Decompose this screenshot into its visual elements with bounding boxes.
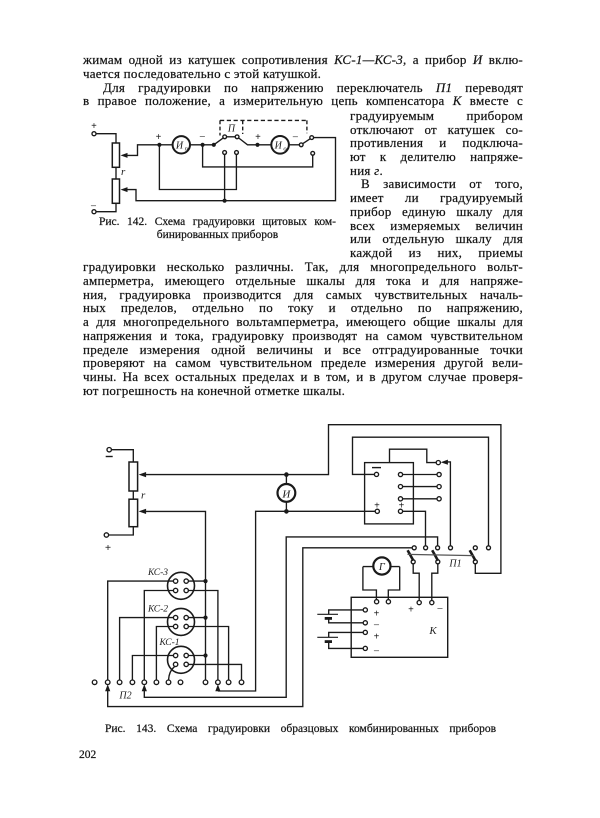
wire node B down to G' <box>203 145 313 167</box>
page number <box>79 749 96 761</box>
KC-3 UR wire to long vertical <box>188 580 205 582</box>
svg-text:+: + <box>255 132 261 143</box>
P1 pivot2 wire down to K minus <box>432 564 438 601</box>
meter Io (reference instrument) <box>271 136 289 154</box>
P1 pivot1 wire down to K plus <box>413 564 419 601</box>
K left terminals <box>363 608 367 612</box>
box plus terminal <box>375 509 379 513</box>
wire between boxes <box>115 167 117 179</box>
svg-text:П1: П1 <box>448 559 461 570</box>
KC-2 LL wire to t6 <box>156 627 173 681</box>
meter I bottom junction <box>284 509 289 514</box>
switch P2 terminal row <box>92 680 244 685</box>
selector arrow wire down to P1 c4 <box>446 462 450 546</box>
svg-text:Г: Г <box>378 562 386 573</box>
lower contact G' <box>311 151 315 155</box>
svg-text:КС-2: КС-2 <box>147 605 168 615</box>
wire divider bottom to terminal plus <box>109 527 134 535</box>
selector box (plug switch) <box>365 463 414 524</box>
wire node A down to D2' <box>159 145 236 190</box>
caption fig 142 <box>99 216 336 229</box>
KC-3 LL wire to t5 <box>144 591 173 681</box>
KC-2 UR wire to long vertical <box>188 617 205 619</box>
KC-3 LR wire to t10 <box>188 591 218 681</box>
meter I <box>278 475 296 512</box>
wire terminal+ to rheostat top <box>96 134 116 143</box>
svg-text:И: И <box>274 141 283 152</box>
KC-2 LR wire to t11 <box>188 627 228 681</box>
contact G <box>310 136 314 140</box>
svg-text:+: + <box>374 632 380 643</box>
battery B1 <box>317 610 363 623</box>
wire G right down and along bottom to lower wiper <box>125 138 336 201</box>
stem between boxes <box>132 491 134 499</box>
body text top paragraph <box>83 53 523 67</box>
right column beside fig 142 <box>350 109 523 123</box>
svg-text:П: П <box>227 124 236 135</box>
contact D2 <box>235 135 239 139</box>
KC-1 UL wire to t4 <box>132 656 173 681</box>
K box (compensator) <box>351 597 448 657</box>
wire D1' to bottom rail <box>224 154 226 200</box>
svg-text:+: + <box>156 132 162 143</box>
svg-text:К: К <box>428 625 437 637</box>
svg-text:+: + <box>374 609 380 620</box>
terminal minus (top left) <box>106 448 113 457</box>
terminal plus (left top) <box>91 121 97 136</box>
svg-text:−: − <box>373 620 379 632</box>
lower wiper arrow and long vertical to t9 <box>143 511 206 680</box>
galvanometer stand bracket <box>363 567 400 600</box>
terminal minus (left bottom) <box>90 201 96 214</box>
svg-text:−: − <box>373 646 379 658</box>
coil KC-2 <box>147 605 195 636</box>
K top terminals for galvanometer <box>375 600 379 604</box>
switch P1 upper contacts <box>412 546 416 550</box>
junction on bottom rail <box>223 199 227 203</box>
galvanometer G <box>373 557 390 574</box>
wiper contact top <box>436 461 440 465</box>
rail I-bottom: from corner via dot to box plus, and down to t10 wiper <box>218 511 375 691</box>
t2 rail: P1 c1 wire left and down to t2 wiper <box>108 548 413 707</box>
inner contacts column <box>398 472 402 476</box>
upper wiper arrow and rail to outer loop <box>143 425 501 574</box>
lower contact D1' <box>223 151 227 155</box>
terminal plus (bottom left) <box>104 533 111 554</box>
svg-text:И: И <box>281 488 291 500</box>
wire A to meter Ip <box>159 144 172 146</box>
bridge D1-D2 <box>227 136 236 138</box>
minus bar in box <box>372 467 381 469</box>
voltage divider r lower box <box>129 499 138 527</box>
t5 rail: P1 c3 riser left and down to t5 wiper <box>144 537 437 697</box>
outer contacts column <box>437 472 441 476</box>
svg-text:п: п <box>185 146 188 153</box>
selector box minus wire and riser loop to P1 c6 <box>353 437 489 546</box>
meter I top junction <box>284 472 289 477</box>
wire inner contact 4 right then down to P1 c2 <box>403 511 426 546</box>
node E <box>255 143 259 147</box>
svg-text:+: + <box>105 542 111 554</box>
wire terminal to divider top <box>111 450 133 462</box>
KC-3 UL wire to t2 <box>108 581 174 680</box>
node junction A <box>157 143 161 147</box>
contact D1 <box>223 135 227 139</box>
rheostat r lower box <box>112 179 119 203</box>
voltage divider r upper box <box>129 462 138 491</box>
rheostat r upper box <box>112 143 119 167</box>
pivot contact F <box>299 143 303 147</box>
svg-text:КС-3: КС-3 <box>147 568 168 578</box>
battery B2 <box>317 632 363 648</box>
coil KC-3 <box>147 568 195 599</box>
dashed enclosure of switch P <box>220 119 307 121</box>
KC-2 UL wire to t3 <box>120 618 174 681</box>
t10 wiper arrow <box>217 688 219 691</box>
wiper arrow lower <box>121 187 128 192</box>
svg-text:+: + <box>91 121 97 132</box>
box minus terminal <box>374 472 378 476</box>
junction dots on long vertical at KC UR terminals <box>203 579 207 583</box>
wire rheostat bottom to terminal minus <box>96 203 116 211</box>
wire meter Ip to node B <box>190 144 214 146</box>
caption fig 143 <box>105 723 496 736</box>
KC-1 LR wire to t12 <box>188 664 241 680</box>
blade D2 down to wire <box>239 138 272 145</box>
node B <box>201 143 205 147</box>
switch P1 lower pivots <box>411 560 415 564</box>
svg-text:+: + <box>408 605 414 616</box>
KC-1 UR wire to long vertical <box>188 655 205 657</box>
KC-1 LL diagonal wire to t7 <box>169 666 175 680</box>
coil KC-1 <box>158 638 194 673</box>
svg-text:r: r <box>121 166 126 178</box>
wire Io to pivot F <box>289 144 299 146</box>
svg-text:И: И <box>175 141 184 152</box>
svg-text:−: − <box>437 603 443 615</box>
wire box top to wiper contact <box>390 449 437 462</box>
switch P section1 blade to upper contact D1 <box>214 138 223 145</box>
lower contact D2' <box>235 151 239 155</box>
svg-text:r: r <box>141 490 146 502</box>
svg-text:П2: П2 <box>118 691 131 702</box>
P1 linkage bar <box>408 554 474 555</box>
main paragraph <box>83 260 523 274</box>
svg-text:−: − <box>292 132 298 144</box>
wiper arrow upper <box>125 145 159 156</box>
meter Ip (panel instrument) <box>173 136 190 153</box>
K top terminals plus/minus <box>417 601 421 605</box>
P1 blades <box>408 550 414 560</box>
node C <box>212 143 216 147</box>
blade F to G <box>303 139 310 144</box>
svg-text:−: − <box>199 131 205 143</box>
links inner to outer contacts <box>403 474 437 476</box>
